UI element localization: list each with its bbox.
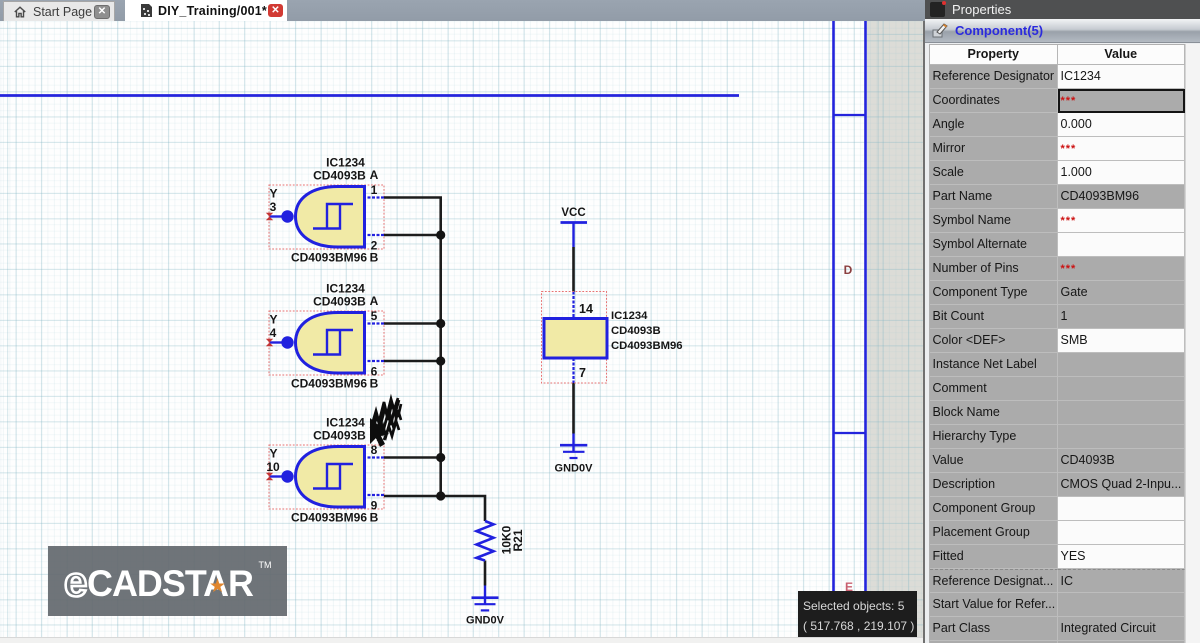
- svg-text:CD4093B: CD4093B: [313, 169, 366, 183]
- svg-text:A: A: [370, 294, 379, 308]
- svg-text:IC1234: IC1234: [326, 416, 365, 430]
- svg-text:GND0V: GND0V: [466, 615, 505, 627]
- svg-text:1: 1: [371, 183, 378, 197]
- svg-text:R21: R21: [511, 529, 525, 551]
- svg-text:B: B: [370, 511, 379, 525]
- svg-text:CD4093BM96: CD4093BM96: [291, 251, 367, 265]
- svg-text:CD4093B: CD4093B: [313, 295, 366, 309]
- svg-text:7: 7: [579, 366, 586, 380]
- svg-text:CD4093BM96: CD4093BM96: [611, 340, 683, 352]
- svg-text:D: D: [844, 263, 853, 277]
- svg-text:8: 8: [371, 443, 378, 457]
- svg-text:2: 2: [371, 239, 378, 253]
- svg-text:B: B: [370, 377, 379, 391]
- svg-text:14: 14: [579, 302, 593, 316]
- svg-text:9: 9: [371, 499, 378, 513]
- svg-text:Y: Y: [269, 447, 277, 461]
- svg-text:6: 6: [371, 365, 378, 379]
- svg-text:GND0V: GND0V: [555, 463, 594, 475]
- svg-text:4: 4: [270, 326, 277, 340]
- svg-text:VCC: VCC: [561, 207, 585, 219]
- svg-text:B: B: [370, 251, 379, 265]
- svg-text:CD4093B: CD4093B: [313, 429, 366, 443]
- svg-text:5: 5: [371, 309, 378, 323]
- svg-text:CD4093BM96: CD4093BM96: [291, 511, 367, 525]
- svg-text:A: A: [370, 168, 379, 182]
- svg-text:IC1234: IC1234: [326, 282, 365, 296]
- svg-text:3: 3: [270, 200, 277, 214]
- svg-text:CD4093B: CD4093B: [611, 325, 661, 337]
- svg-text:IC1234: IC1234: [326, 156, 365, 170]
- svg-text:Y: Y: [269, 187, 277, 201]
- svg-text:Y: Y: [269, 313, 277, 327]
- svg-text:10: 10: [266, 460, 280, 474]
- svg-text:CD4093BM96: CD4093BM96: [291, 377, 367, 391]
- svg-text:IC1234: IC1234: [611, 310, 648, 322]
